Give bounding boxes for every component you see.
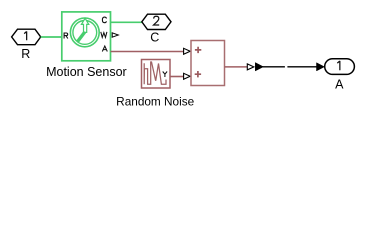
- svg-text:C: C: [150, 30, 159, 44]
- black wire to outport: [263, 66, 285, 68]
- block Motion Sensor: [62, 12, 111, 61]
- port number 2: [154, 16, 160, 25]
- open arrowhead at end of maroon wire: [247, 64, 254, 70]
- port label R: [64, 33, 68, 39]
- W port unconnected arrow: [112, 33, 118, 37]
- arrowhead into sum input 2: [184, 73, 191, 79]
- plus sign input 1: [195, 47, 201, 53]
- block Random Noise: [142, 60, 171, 89]
- wire inport to Motion Sensor: [41, 36, 62, 38]
- svg-text:A: A: [335, 77, 344, 91]
- svg-text:Random Noise: Random Noise: [116, 95, 194, 109]
- arrowhead into sum input 1: [184, 48, 191, 54]
- filled arrowhead into outport: [317, 63, 325, 71]
- svg-text:R: R: [21, 47, 30, 61]
- filled arrowhead start of black wire: [255, 63, 263, 71]
- inport 1 (R): [12, 29, 41, 45]
- port number 1: [337, 61, 340, 70]
- wire Y to sum input 2: [170, 76, 184, 78]
- outport 1 (A): [325, 59, 355, 75]
- wire sum output: [225, 66, 248, 68]
- outport 2 (C): [142, 14, 171, 29]
- port label Y: [163, 72, 167, 78]
- port label C: [102, 17, 106, 23]
- plus sign input 2: [195, 71, 201, 77]
- noise icon: [144, 62, 166, 84]
- port label A: [102, 46, 107, 52]
- wire C to outport 2: [111, 21, 142, 23]
- wire A to sum input 1: [111, 51, 184, 53]
- sum block: [191, 41, 225, 86]
- svg-text:Motion Sensor: Motion Sensor: [46, 65, 127, 79]
- black wire segment 2 to outport: [287, 66, 317, 68]
- port number 1: [24, 31, 26, 40]
- port label W: [101, 32, 107, 38]
- clock icon: [70, 18, 99, 47]
